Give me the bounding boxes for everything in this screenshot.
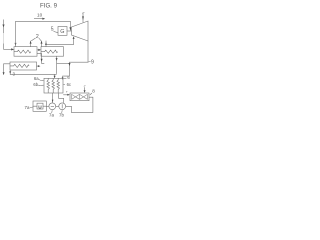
svg-text:2: 2 (36, 34, 39, 40)
svg-text:6b: 6b (33, 82, 38, 87)
recuperator coil box (44, 78, 63, 93)
vapor line HX2 to turbine bottom (45, 41, 47, 47)
wire drop to coil box (54, 74, 56, 77)
wire HX3 bottom L (10, 70, 56, 74)
condenser outlet loop (66, 97, 93, 112)
svg-text:7a: 7a (49, 113, 54, 118)
pump 7b (59, 103, 66, 110)
turbine inlet drop (69, 21, 71, 30)
svg-text:6c: 6c (67, 82, 71, 87)
svg-text:8: 8 (92, 89, 95, 94)
motor box 7c (33, 101, 46, 111)
wire HX1 down to HX3 (37, 54, 44, 64)
riser pump2 to coil box (59, 93, 64, 103)
shaft between pumps (56, 105, 59, 107)
coil of HX1 (14, 50, 31, 53)
arrow stub on HX1 top (30, 41, 32, 47)
svg-text:U: U (38, 104, 42, 110)
svg-text:6: 6 (67, 75, 70, 80)
heat exchanger box 3 (10, 62, 37, 70)
wire branch to exhaust leg (57, 63, 70, 65)
coil 1 (47, 78, 50, 93)
pump 7a (49, 103, 56, 110)
coil 3 (57, 78, 60, 93)
wire coil box to condenser (63, 94, 68, 96)
wire HX2 bottom drop (56, 56, 58, 74)
svg-text:7a: 7a (25, 105, 30, 110)
coil of HX3 (10, 64, 29, 67)
condenser top arrow (84, 87, 86, 92)
gas out of HX3 (4, 64, 10, 75)
leader 2 to HX1 (31, 38, 35, 41)
riser pump1 to coil box (52, 93, 54, 103)
shaft to pump 1 (46, 105, 49, 107)
generator box G (58, 27, 67, 36)
wire top pipe (16, 20, 71, 22)
leader 2 to HX2 (39, 38, 41, 41)
svg-text:7b: 7b (59, 113, 64, 118)
condenser box (70, 93, 89, 101)
coil 2 (52, 78, 55, 93)
svg-text:FIG. 9: FIG. 9 (40, 3, 58, 10)
heat exchanger box 2 (41, 47, 64, 57)
svg-text:G: G (60, 29, 64, 35)
arrow stub on HX2 top (41, 41, 43, 47)
svg-text:5: 5 (51, 27, 54, 33)
shaft (67, 30, 72, 32)
wire HX1 to HX2 gas connector (37, 49, 40, 51)
turbine top entry arrow (82, 14, 84, 23)
gas inlet arrow (3, 20, 5, 34)
svg-text:10: 10 (37, 12, 43, 17)
turbine 4 (72, 21, 89, 41)
wire left riser into HX1 (15, 21, 17, 46)
svg-text:9: 9 (91, 60, 94, 66)
heat exchanger box 1 (14, 47, 37, 57)
condenser lattice (72, 94, 88, 99)
wire gas into HX1 (4, 48, 14, 50)
coil of HX2 (41, 50, 58, 53)
svg-text:3: 3 (12, 71, 15, 76)
stub HX3 right (37, 65, 40, 67)
flow arrow 10 (34, 18, 43, 20)
turbine exhaust loop (63, 41, 88, 79)
svg-text:6a: 6a (34, 76, 39, 81)
